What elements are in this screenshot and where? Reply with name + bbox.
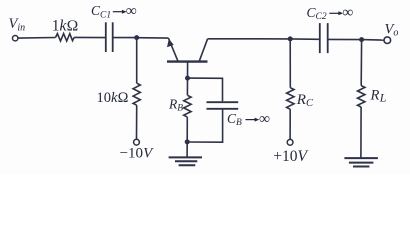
resistor RC top lead: [289, 39, 291, 88]
capacitor CC2 plates: [319, 23, 321, 53]
wire CB bottom: [187, 109, 222, 142]
terminal +10V: [287, 139, 293, 145]
svg-text:10kΩ: 10kΩ: [97, 90, 129, 106]
wire Vin to R1: [18, 37, 55, 40]
wire R1 to CC1: [74, 36, 105, 38]
wire collector to RC node: [208, 38, 291, 40]
resistor RC bottom lead: [289, 109, 291, 139]
transistor Q1 base bar: [167, 60, 208, 62]
svg-text:CB: CB: [227, 111, 242, 128]
node Vin terminal: [13, 36, 18, 41]
svg-text:+10V: +10V: [273, 148, 308, 165]
wire CC2 to RL node: [328, 38, 362, 40]
terminal Vo: [384, 37, 391, 44]
svg-text:RL: RL: [370, 87, 387, 104]
junction node A: [134, 35, 139, 40]
junction dot base node: [185, 76, 190, 81]
resistor RL zigzag: [358, 86, 365, 107]
ground right: [344, 157, 378, 159]
svg-text:Vin: Vin: [9, 16, 26, 33]
transistor Q1 base lead: [187, 62, 189, 79]
svg-text:∞: ∞: [126, 2, 137, 19]
wire RC node to CC2: [290, 38, 319, 40]
resistor RL bottom lead: [360, 107, 362, 158]
svg-text:∞: ∞: [342, 4, 353, 21]
svg-text:Vo: Vo: [385, 22, 399, 39]
resistor RB top lead: [186, 78, 188, 95]
junction dot RC node: [288, 36, 293, 41]
transistor Q1 emitter lead: [168, 38, 178, 61]
label CC2 arrow: [329, 11, 343, 15]
resistor RL top lead: [360, 40, 362, 86]
junction dot RL node: [359, 37, 364, 42]
svg-text:∞: ∞: [259, 110, 270, 127]
terminal -10V: [134, 139, 140, 145]
svg-text:−10V: −10V: [120, 145, 154, 161]
wire node A to emitter: [137, 37, 169, 39]
capacitor CC1 plates: [105, 22, 107, 52]
svg-text:RC: RC: [296, 92, 314, 109]
ground left: [169, 156, 202, 158]
transistor Q1 collector lead: [199, 39, 207, 62]
svg-text:RB: RB: [168, 97, 183, 114]
wire base node to CB top: [188, 78, 223, 101]
wire 10k top lead: [136, 38, 138, 84]
label CB arrow: [246, 118, 260, 122]
svg-text:CC2: CC2: [307, 5, 327, 22]
capacitor CB plates: [207, 101, 239, 103]
resistor 10kOhm zigzag: [133, 83, 140, 105]
resistor RB bottom lead: [186, 117, 188, 142]
transistor Q1 emitter arrow: [167, 39, 174, 48]
svg-text:1kΩ: 1kΩ: [52, 17, 79, 34]
wire RL node to Vo: [362, 39, 384, 42]
resistor RB zigzag: [184, 95, 191, 117]
resistor 1kOhm zigzag: [56, 34, 75, 41]
label CC1 arrow: [113, 10, 127, 14]
resistor RC zigzag: [287, 88, 294, 110]
wire CC1 to node A: [113, 37, 137, 39]
svg-text:CC1: CC1: [91, 3, 111, 20]
wire 10k bottom lead: [136, 105, 138, 139]
junction dot bottom node: [185, 139, 190, 144]
wire to left ground: [186, 142, 188, 157]
